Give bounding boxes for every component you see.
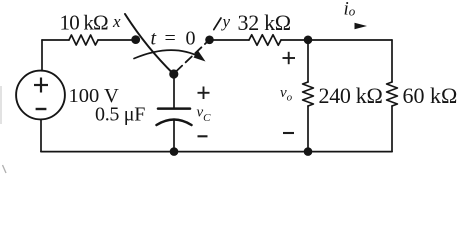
svg-text:32 kΩ: 32 kΩ [238,10,291,35]
svg-text:60 kΩ: 60 kΩ [403,83,458,108]
svg-text:t=0: t=0 [151,28,196,50]
svg-text:x: x [112,12,121,31]
svg-text:vo: vo [280,85,293,104]
svg-text:y: y [221,12,231,31]
svg-text:240 kΩ: 240 kΩ [319,83,383,108]
svg-text:vC: vC [197,105,212,125]
svg-text:io: io [344,0,356,20]
svg-text:0.5 μF: 0.5 μF [95,104,145,126]
svg-text:10 kΩ: 10 kΩ [60,11,109,35]
